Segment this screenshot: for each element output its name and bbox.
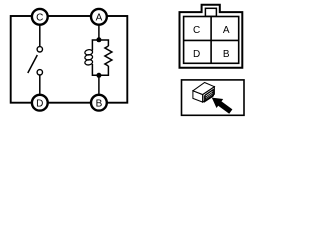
arrow pointer <box>212 98 233 114</box>
node junction top <box>96 37 101 42</box>
svg-text:A: A <box>96 12 103 23</box>
wire node to B <box>98 75 100 102</box>
component box outline <box>11 16 128 103</box>
wire C to switch <box>39 17 41 47</box>
wire A to node <box>98 17 100 40</box>
node junction bottom <box>96 73 101 78</box>
parallel block top bar <box>92 40 108 51</box>
terminal C <box>32 9 48 25</box>
wire switch to D <box>39 75 41 103</box>
svg-text:C: C <box>193 25 200 36</box>
connector location box <box>182 80 245 115</box>
coil L loops <box>84 49 93 65</box>
svg-text:B: B <box>223 49 230 60</box>
parallel block bottom bar <box>92 64 108 75</box>
connector grid divider horizontal <box>184 39 239 41</box>
switch SW contact bottom <box>37 70 42 75</box>
connector latch tab inner <box>205 8 216 16</box>
connector 3D icon socket slots <box>204 89 213 102</box>
terminal B <box>91 95 107 111</box>
switch SW contact top <box>37 47 42 52</box>
terminal A <box>91 9 107 25</box>
svg-text:D: D <box>193 49 200 60</box>
svg-text:A: A <box>223 25 230 36</box>
resistor R zigzag <box>105 46 112 66</box>
connector grid divider vertical <box>210 17 212 64</box>
connector housing outer outline with latch tab <box>180 5 243 68</box>
switch SW blade <box>28 55 38 73</box>
connector 3D icon body <box>193 83 215 103</box>
terminal D <box>32 95 48 111</box>
svg-text:D: D <box>36 98 43 109</box>
svg-text:C: C <box>36 12 43 23</box>
connector cavity grid frame <box>184 17 239 64</box>
svg-text:B: B <box>96 98 103 109</box>
